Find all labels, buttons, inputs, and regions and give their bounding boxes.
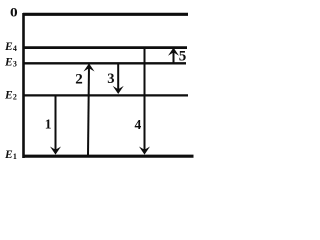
svg-text:E: E xyxy=(4,89,13,101)
svg-text:5: 5 xyxy=(179,49,187,65)
svg-text:4: 4 xyxy=(13,44,17,53)
svg-text:2: 2 xyxy=(75,71,83,87)
arrow 2 transition E1 to E3 xyxy=(84,63,95,155)
svg-text:1: 1 xyxy=(13,152,17,161)
svg-text:E: E xyxy=(4,149,13,161)
svg-text:2: 2 xyxy=(13,92,17,101)
level line E2 xyxy=(23,94,188,96)
svg-text:0: 0 xyxy=(10,6,18,21)
arrow 1 transition E2 to E1 xyxy=(50,96,61,155)
arrow 5 transition E3 to E4 xyxy=(168,48,179,63)
svg-text:3: 3 xyxy=(13,59,17,68)
level line 0 xyxy=(23,13,188,16)
svg-text:3: 3 xyxy=(107,71,114,87)
arrow 3 transition E3 to E2 xyxy=(113,64,124,95)
level line E3 xyxy=(23,62,186,64)
svg-text:E: E xyxy=(4,41,13,53)
svg-text:E: E xyxy=(4,56,13,68)
level line E4 xyxy=(23,46,187,49)
arrow 4 transition E4 to E1 xyxy=(139,48,150,155)
svg-text:1: 1 xyxy=(45,116,52,131)
level line E1 xyxy=(23,155,194,158)
svg-text:4: 4 xyxy=(135,117,142,132)
left border wire xyxy=(22,13,25,158)
